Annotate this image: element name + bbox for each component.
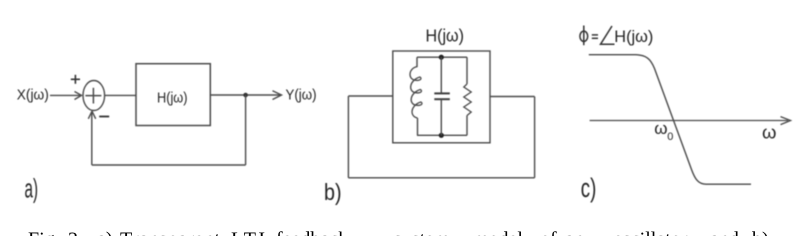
svg-text:feedback: feedback	[276, 228, 348, 236]
junction node dot	[243, 93, 248, 98]
label a)	[25, 174, 39, 204]
capacitor C branch wire top	[440, 57, 442, 93]
svg-text:H(jω): H(jω)	[157, 90, 188, 107]
top rail wire	[417, 56, 467, 58]
resonator box	[393, 51, 490, 143]
svg-text:c): c)	[581, 173, 597, 203]
capacitor C branch wire bottom	[440, 99, 442, 135]
wire H block to output	[210, 94, 281, 96]
inductor L branch wire bottom	[417, 118, 419, 135]
node Y(jw) output label	[286, 87, 317, 104]
axis arrowhead	[781, 117, 791, 125]
loop wire bottom	[348, 177, 534, 179]
plus sign inside summer	[85, 88, 101, 104]
wire input to summer	[50, 94, 80, 96]
label H(jw) in block	[157, 90, 188, 107]
svg-text:an: an	[565, 228, 584, 236]
svg-text:Fig.: Fig.	[28, 228, 60, 236]
output arrowhead	[273, 91, 282, 100]
svg-text:b): b)	[324, 179, 342, 205]
svg-text:b): b)	[752, 228, 769, 236]
svg-text:of: of	[540, 228, 557, 236]
capacitor C plates	[434, 93, 450, 99]
feedback wire bottom	[92, 164, 246, 166]
svg-text:ω: ω	[762, 122, 776, 143]
svg-text:a): a)	[97, 228, 113, 236]
resistor R zigzag	[464, 84, 471, 116]
phase curve	[589, 55, 751, 185]
plus sign (input polarity)	[71, 75, 80, 84]
frequency axis	[590, 120, 788, 122]
resistor R branch wire bottom	[466, 116, 468, 136]
svg-text:LTI: LTI	[231, 228, 265, 236]
svg-text:oscillator: oscillator	[613, 228, 688, 236]
label H(jw) over resonator box	[426, 26, 465, 46]
inductor L branch wire top	[416, 57, 418, 67]
svg-text:0: 0	[667, 131, 673, 143]
feedback wire up to summer	[91, 112, 93, 165]
svg-text:model: model	[473, 228, 523, 236]
svg-text:Transparent: Transparent	[120, 228, 220, 236]
loop wire right vertical	[534, 97, 536, 178]
block H(jw)	[136, 64, 210, 126]
node X(jw) input label	[17, 87, 49, 104]
label H(jw) of phase	[614, 27, 653, 46]
wire box right stub	[490, 96, 535, 98]
svg-text:system: system	[394, 228, 450, 236]
wire summer to H block	[105, 94, 136, 96]
svg-text:a): a)	[25, 174, 39, 204]
wire box left stub	[348, 95, 392, 97]
arrowhead into summer	[75, 92, 82, 100]
label c)	[581, 173, 597, 203]
inductor L coil	[410, 67, 422, 119]
feedback arrowhead up	[88, 111, 95, 119]
svg-text:H(jω): H(jω)	[614, 27, 653, 46]
loop wire left vertical	[347, 96, 349, 178]
summing junction circle	[83, 81, 105, 111]
svg-text:and: and	[710, 228, 739, 236]
top junction dot	[439, 55, 444, 60]
feedback wire down from junction	[245, 95, 247, 165]
label omega0	[654, 119, 673, 143]
caption: Fig. 2. a) Transparent LTI feedback system model of an oscillator and b)	[28, 228, 769, 240]
label b)	[324, 179, 342, 205]
label phi equals	[580, 26, 598, 46]
bottom rail wire	[417, 134, 467, 136]
angle symbol	[601, 26, 615, 44]
svg-text:Y(jω): Y(jω)	[286, 87, 317, 104]
label omega axis	[762, 122, 776, 143]
resistor R branch wire top	[466, 57, 468, 84]
svg-text:ω: ω	[654, 119, 667, 138]
bottom junction dot	[439, 133, 444, 138]
svg-text:H(jω): H(jω)	[426, 26, 465, 46]
svg-text:X(jω): X(jω)	[17, 87, 49, 104]
minus sign (feedback polarity)	[99, 116, 109, 118]
svg-text:2.: 2.	[68, 228, 83, 236]
